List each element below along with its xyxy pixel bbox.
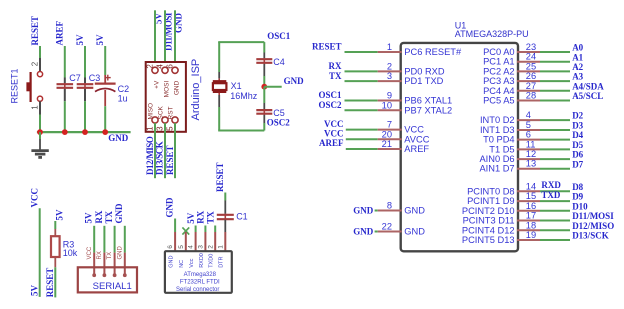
svg-text:PB6 XTAL1: PB6 XTAL1 — [404, 96, 452, 106]
wire U1 pin 15 to D9 — [540, 200, 570, 202]
svg-text:C2: C2 — [118, 84, 130, 94]
svg-text:GND: GND — [404, 227, 425, 237]
svg-text:5V: 5V — [186, 212, 196, 224]
wire VCC to 5V — [39, 208, 41, 297]
wire GND to FTDI pin 6 — [174, 219, 176, 233]
svg-text:VCC: VCC — [324, 119, 344, 129]
svg-text:20: 20 — [382, 129, 392, 139]
wire GND to ISP pin 6 — [174, 10, 176, 67]
svg-text:GND: GND — [353, 227, 374, 237]
net label RESET (ISP) — [165, 145, 175, 175]
wire U1 pin 13 to D7 — [540, 168, 570, 170]
wire ISP pin 5 to RESET — [174, 123, 176, 178]
wire U1 pin 17 to D11/MOSI — [540, 220, 570, 222]
net label D13/SCK (U1 pin 19) — [572, 231, 609, 241]
U1 pin 22 GND — [378, 222, 426, 237]
svg-text:RX: RX — [196, 210, 206, 223]
net label RX (SERIAL1 pin 2) — [94, 210, 104, 223]
svg-text:10k: 10k — [63, 248, 78, 258]
wire U1 pin 6 to D4 — [540, 139, 570, 141]
FTDI pin name Vcc — [189, 258, 195, 267]
net label RESET (U1 pin 1) — [312, 42, 342, 52]
svg-text:1: 1 — [145, 126, 154, 131]
FTDI pin name TXD0 — [209, 254, 215, 268]
svg-text:GND: GND — [117, 246, 123, 260]
svg-text:2: 2 — [145, 64, 154, 69]
net label OSC2 (U1 pin 10) — [318, 100, 342, 110]
U1 pin 4 INT0 D2 — [480, 110, 540, 125]
svg-text:D13/SCK: D13/SCK — [155, 141, 165, 175]
net label GND (crystal) — [284, 76, 305, 86]
U1 pin 14 PCINT0 D8 — [467, 181, 540, 196]
svg-text:16: 16 — [526, 201, 536, 211]
net label VCC (pullup feed) — [30, 188, 40, 208]
svg-text:MISO: MISO — [147, 103, 154, 120]
net label TX (FTDI pin2) — [205, 211, 215, 224]
svg-text:4: 4 — [155, 64, 164, 69]
svg-text:16Mhz: 16Mhz — [230, 91, 258, 101]
svg-text:11: 11 — [526, 139, 536, 149]
label C4 — [273, 57, 285, 67]
FTDI pin number 1 — [217, 245, 224, 249]
pin number 2 (RESET1) — [30, 61, 39, 66]
ISP pin name +V — [153, 80, 160, 89]
net label RX (FTDI pin3) — [196, 210, 206, 223]
svg-text:PCINT3 D11: PCINT3 D11 — [463, 216, 515, 226]
U1 pin 7 VCC — [378, 120, 425, 135]
junction (crystal GND) — [261, 84, 267, 90]
connector Arduino_ISP body — [146, 62, 186, 132]
wire C7 to GND bus — [64, 101, 66, 132]
wire U1 pin 27 to A4/SDA — [540, 90, 570, 92]
svg-text:SERIAL1: SERIAL1 — [93, 281, 132, 292]
svg-text:D11/MOSI: D11/MOSI — [572, 211, 614, 221]
svg-text:TX: TX — [104, 210, 114, 223]
junction (button-GND) — [37, 129, 43, 135]
U1 pin 21 AREF — [378, 139, 430, 154]
svg-text:RX: RX — [329, 61, 342, 71]
svg-text:PCINT0 D8: PCINT0 D8 — [467, 186, 515, 196]
label SERIAL1 — [93, 281, 132, 292]
net label D12/MISO — [145, 136, 155, 175]
U1 pin 27 PC4 A4 — [483, 81, 540, 96]
GND bus wire — [37, 131, 131, 133]
wire C3 to GND bus — [84, 101, 86, 132]
U1 pin 16 PCINT2 D10 — [462, 201, 540, 216]
svg-text:PC0 A0: PC0 A0 — [483, 47, 515, 57]
label X1 — [231, 81, 242, 91]
net label 5V (R3 top) — [54, 209, 64, 221]
wire RESET to button pin 2 — [39, 46, 41, 72]
wire U1 pin 5 to D3 — [540, 129, 570, 131]
net label RESET (R3 bottom) — [45, 268, 55, 298]
svg-text:1: 1 — [387, 42, 392, 52]
wire ISP pin 3 to D13/SCK — [164, 123, 166, 178]
svg-text:21: 21 — [382, 139, 392, 149]
junction (C7-GND) — [62, 129, 68, 135]
wire U1 pin 4 to D2 — [540, 119, 570, 121]
svg-text:PC2 A2: PC2 A2 — [483, 66, 515, 76]
net label OSC1 (crystal) — [267, 31, 291, 41]
net label D12/MISO (U1 pin 18) — [572, 221, 614, 231]
wire AREF to C7 — [64, 46, 66, 78]
FTDI pin number 6 — [167, 245, 174, 249]
ISP pin 4 (top) — [155, 64, 168, 74]
net label GND (ISP pin6) — [174, 13, 184, 34]
svg-text:TX: TX — [205, 211, 215, 224]
svg-text:RX: RX — [97, 251, 103, 259]
label U1 — [455, 20, 467, 30]
svg-text:RESET: RESET — [165, 145, 175, 175]
net label GND (bus) — [108, 133, 129, 143]
svg-text:2: 2 — [207, 245, 214, 249]
svg-text:D3: D3 — [572, 121, 583, 131]
wire GND stub (crystal) — [264, 86, 281, 88]
U1 pin 10 PB7 XTAL2 — [378, 100, 452, 115]
net label D11/MOSI (U1 pin 17) — [572, 211, 614, 221]
U1 pin 1 PC6 RESET# — [378, 42, 462, 57]
SERIAL1 pin 1 lead — [92, 253, 96, 278]
label R3 — [63, 240, 75, 250]
svg-text:6: 6 — [167, 245, 174, 249]
svg-text:D12/MISO: D12/MISO — [145, 136, 155, 175]
svg-text:18: 18 — [526, 220, 536, 230]
svg-text:12: 12 — [526, 149, 536, 159]
svg-text:5: 5 — [526, 120, 531, 130]
U1 pin 13 AIN1 D7 — [479, 159, 540, 174]
net label D4 (U1 pin 6) — [572, 130, 583, 140]
FTDI pin name NC — [179, 260, 185, 268]
svg-text:OSC2: OSC2 — [267, 118, 291, 128]
svg-text:A5/SCL: A5/SCL — [572, 91, 603, 101]
wire OSC1 branch to C4 — [263, 42, 265, 52]
net label D10 (U1 pin 16) — [572, 201, 588, 211]
svg-text:6: 6 — [526, 130, 531, 140]
svg-text:2: 2 — [387, 61, 392, 71]
svg-text:10: 10 — [382, 100, 392, 110]
connector FT232RL FTDI body — [165, 251, 232, 293]
net label D7 (U1 pin 13) — [572, 159, 583, 169]
svg-text:RESET: RESET — [45, 268, 55, 298]
wire OSC2 (bottom of crystal loop) — [218, 107, 264, 131]
net label A1 (U1 pin 24) — [572, 52, 583, 62]
svg-text:AREF: AREF — [319, 138, 344, 148]
net label OSC2 (crystal) — [267, 118, 291, 128]
net label TX (U1 pin 3) — [329, 71, 342, 81]
wire U1 pin 12 to D6 — [540, 158, 570, 160]
svg-text:D6: D6 — [572, 150, 583, 160]
net label 5V (SERIAL1 pin 1) — [84, 212, 94, 224]
wire D11/MOSI to ISP pin 4 — [164, 10, 166, 67]
svg-text:5V: 5V — [29, 285, 39, 297]
svg-text:C7: C7 — [69, 73, 81, 83]
junction (C3-GND) — [82, 129, 88, 135]
wire C4 to junction — [263, 76, 265, 87]
net label GND (SERIAL1 pin 4) — [114, 203, 124, 224]
wire U1 pin 11 to D5 — [540, 148, 570, 150]
U1 pin 24 PC1 A1 — [483, 52, 540, 67]
svg-text:19: 19 — [526, 230, 536, 240]
net label D6 (U1 pin 12) — [572, 150, 583, 160]
svg-text:PC1 A1: PC1 A1 — [483, 57, 515, 67]
svg-text:3: 3 — [198, 245, 205, 249]
U1 pin 19 PCINT5 D13 — [462, 230, 540, 245]
wire 5V to C3 — [84, 46, 86, 78]
net label VCC (U1 pin 20) — [324, 129, 344, 139]
FTDI pin 5 lead — [185, 232, 187, 252]
svg-text:OSC1: OSC1 — [318, 90, 342, 100]
capacitor C1 — [217, 201, 234, 233]
svg-text:PCINT4 D12: PCINT4 D12 — [462, 225, 515, 235]
svg-text:GND: GND — [169, 256, 175, 268]
svg-text:X1: X1 — [231, 81, 242, 91]
wire 5V to SERIAL1 pin 1 — [93, 226, 95, 253]
wire U1 pin 23 to A0 — [540, 51, 570, 53]
svg-text:GND: GND — [404, 206, 425, 216]
net label D2 (U1 pin 4) — [572, 111, 583, 121]
svg-text:AREF: AREF — [404, 144, 429, 154]
svg-text:MOSI: MOSI — [163, 81, 170, 98]
svg-text:D10: D10 — [572, 201, 588, 211]
U1 pin 6 T0 PD4 — [483, 130, 540, 145]
svg-text:RXD: RXD — [541, 180, 561, 190]
U1 pin 11 T1 D5 — [489, 139, 540, 154]
capacitor C5 — [256, 103, 272, 131]
svg-text:PC6 RESET#: PC6 RESET# — [404, 47, 462, 57]
net label GND (FTDI pin6) — [165, 197, 175, 218]
svg-text:3: 3 — [387, 71, 392, 81]
wire to U1 pin 10 — [345, 109, 378, 111]
svg-text:23: 23 — [526, 42, 536, 52]
FTDI pin name GND — [169, 256, 175, 268]
wire U1 pin 28 to A5/SCL — [540, 100, 570, 102]
wire C2 to GND bus — [104, 106, 106, 132]
net label GND (U1 pin 22) — [353, 227, 374, 237]
net label 5V (C3 branch) — [75, 34, 85, 46]
FTDI pin 4 lead — [195, 232, 197, 252]
net label OSC1 (U1 pin 9) — [318, 90, 342, 100]
svg-text:26: 26 — [526, 71, 536, 81]
svg-text:D4: D4 — [572, 130, 583, 140]
svg-text:Vcc: Vcc — [189, 258, 195, 267]
SERIAL1 pin 3 lead — [113, 253, 117, 278]
svg-text:PCINT2 D10: PCINT2 D10 — [462, 206, 515, 216]
FTDI pin number 3 — [198, 245, 205, 249]
svg-text:A3: A3 — [572, 72, 583, 82]
label ATMEGA328P-PU — [455, 29, 529, 39]
label ATmega328 (FTDI) — [184, 272, 217, 278]
FTDI pin name RXD0 — [199, 253, 205, 268]
label Arduino_ISP — [190, 59, 202, 121]
wire U1 pin 19 to D13/SCK — [540, 239, 570, 241]
wire 5V to FTDI pin 4 — [195, 226, 197, 233]
svg-text:GND: GND — [165, 197, 175, 218]
svg-text:OSC2: OSC2 — [318, 100, 342, 110]
svg-text:RXD0: RXD0 — [199, 253, 205, 268]
U1 pin 9 PB6 XTAL1 — [378, 91, 452, 106]
svg-text:AIN1 D7: AIN1 D7 — [479, 164, 514, 174]
capacitor C4 — [256, 53, 272, 77]
wire GND to SERIAL1 pin 4 — [124, 226, 126, 253]
svg-text:1: 1 — [30, 105, 39, 110]
wire U1 pin 26 to A3 — [540, 80, 570, 82]
pin number 1 (RESET1) — [30, 105, 39, 110]
wire U1 pin 16 to D10 — [540, 210, 570, 212]
net label 5V (ISP pin2) — [154, 13, 164, 25]
svg-text:GND: GND — [114, 203, 124, 224]
svg-text:5V: 5V — [75, 34, 85, 46]
svg-text:NC: NC — [179, 260, 185, 268]
ISP pin name RST — [167, 106, 174, 119]
connector SERIAL1 body — [78, 267, 137, 292]
label FT232RL FTDI — [180, 279, 220, 285]
no-connect X (FTDI pin5) — [182, 227, 189, 234]
wire 5V to ISP pin 2 — [154, 10, 156, 67]
svg-text:D8: D8 — [572, 182, 583, 192]
U1 pin 8 GND — [378, 201, 426, 216]
crystal X1 — [213, 72, 227, 107]
svg-text:T0 PD4: T0 PD4 — [483, 135, 515, 145]
ISP pin name SCK — [157, 105, 164, 119]
ISP pin 6 (top) — [165, 64, 178, 74]
svg-text:DTR: DTR — [219, 256, 225, 267]
capacitor C2 (polarized) — [95, 75, 116, 107]
wire to U1 pin 2 — [345, 70, 378, 72]
wire R3 to RESET — [54, 267, 56, 297]
wire TX to SERIAL1 pin 3 — [114, 226, 116, 253]
svg-text:14: 14 — [526, 181, 536, 191]
U1 pin 26 PC3 A3 — [483, 71, 540, 86]
label C2 — [118, 84, 130, 94]
svg-text:GND: GND — [173, 80, 180, 95]
svg-text:TX: TX — [107, 252, 113, 260]
SERIAL1 pin name GND — [117, 246, 123, 260]
U1 pin 17 PCINT3 D11 — [463, 211, 540, 226]
wire to U1 pin 8 — [375, 210, 378, 212]
net label RESET — [30, 16, 40, 46]
svg-text:PCINT5 D13: PCINT5 D13 — [462, 235, 515, 245]
junction (C2-GND) — [102, 129, 108, 135]
wire to U1 pin 22 — [375, 231, 378, 233]
svg-text:A0: A0 — [572, 43, 583, 53]
svg-text:D5: D5 — [572, 140, 583, 150]
svg-text:PC4 A4: PC4 A4 — [483, 86, 515, 96]
svg-text:D7: D7 — [572, 159, 583, 169]
svg-text:D9: D9 — [572, 192, 583, 202]
svg-text:ATmega328: ATmega328 — [184, 272, 217, 278]
wire U1 pin 25 to A2 — [540, 70, 570, 72]
value 10k (R3) — [63, 248, 78, 258]
svg-text:VCC: VCC — [87, 246, 93, 259]
U1 pin 2 PD0 RXD — [378, 61, 445, 76]
wire button pin 1 to GND bus — [39, 101, 41, 132]
ISP pin 2 (top) — [145, 64, 158, 74]
SERIAL1 pin 2 lead — [103, 253, 107, 278]
ISP pin 3 (bottom) — [155, 117, 168, 131]
SERIAL1 pin name RX — [97, 251, 103, 259]
net label VCC (U1 pin 7) — [324, 119, 344, 129]
wire to U1 pin 21 — [346, 148, 378, 150]
net label D9 (U1 pin 15) — [572, 192, 583, 202]
svg-text:PC5 A5: PC5 A5 — [483, 96, 515, 106]
net label D8 (U1 pin 14) — [572, 182, 583, 192]
svg-text:AVCC: AVCC — [404, 134, 429, 144]
svg-text:T1 D5: T1 D5 — [489, 144, 514, 154]
svg-text:PC3 A3: PC3 A3 — [483, 76, 515, 86]
wire ISP pin 1 to D12/MISO — [154, 123, 156, 178]
svg-text:TXD0: TXD0 — [209, 254, 215, 268]
FTDI pin name DTR — [219, 256, 225, 267]
svg-text:8: 8 — [387, 201, 392, 211]
net label D3 (U1 pin 5) — [572, 121, 583, 131]
wire to U1 pin 9 — [345, 100, 378, 102]
svg-text:VCC: VCC — [404, 125, 424, 135]
svg-text:RST: RST — [167, 106, 174, 119]
FTDI pin 3 lead — [204, 232, 206, 252]
wire to U1 pin 7 — [346, 129, 378, 131]
svg-text:PCINT1 D9: PCINT1 D9 — [467, 196, 515, 206]
net label 5V (FTDI pin4) — [186, 212, 196, 224]
svg-text:5V: 5V — [54, 209, 64, 221]
SERIAL1 pin 4 lead — [123, 253, 127, 278]
net label 5V (pullup feed) — [29, 285, 39, 297]
net label A4/SDA (U1 pin 27) — [572, 81, 604, 91]
svg-text:5V: 5V — [84, 212, 94, 224]
U1 pin 15 PCINT1 D9 — [467, 191, 540, 206]
svg-text:FT232RL FTDI: FT232RL FTDI — [180, 279, 220, 285]
wire OSC1 (top of crystal loop) — [218, 42, 264, 72]
wire U1 pin 18 to D12/MISO — [540, 229, 570, 231]
U1 pin 25 PC2 A2 — [483, 61, 540, 76]
svg-text:PD0 RXD: PD0 RXD — [404, 66, 445, 76]
U1 pin 23 PC0 A0 — [483, 42, 540, 57]
net label AREF (U1 pin 21) — [319, 138, 344, 148]
svg-text:TX: TX — [329, 71, 342, 81]
svg-text:TXD: TXD — [541, 190, 561, 200]
svg-text:22: 22 — [382, 222, 392, 232]
svg-text:1: 1 — [217, 245, 224, 249]
FTDI pin number 5 — [178, 245, 185, 249]
svg-text:5: 5 — [178, 245, 185, 249]
wire RX to FTDI pin 3 — [204, 226, 206, 233]
wire to U1 pin 3 — [345, 80, 378, 82]
wire to U1 pin 1 — [345, 51, 378, 53]
svg-text:SCK: SCK — [157, 105, 164, 119]
FTDI pin number 4 — [188, 245, 195, 249]
svg-text:3: 3 — [155, 126, 164, 131]
value 1u (C2) — [118, 94, 128, 104]
svg-text:VCC: VCC — [30, 188, 40, 208]
svg-text:INT0 D2: INT0 D2 — [480, 115, 515, 125]
SERIAL1 pin name TX — [107, 252, 113, 260]
capacitor C3 — [77, 78, 94, 102]
wire RX to SERIAL1 pin 2 — [103, 226, 105, 253]
ISP pin name MISO — [147, 103, 154, 120]
resistor R3 — [51, 229, 60, 267]
svg-text:RESET: RESET — [312, 42, 342, 52]
svg-text:C4: C4 — [273, 57, 285, 67]
svg-text:VCC: VCC — [324, 129, 344, 139]
FTDI pin number 2 — [207, 245, 214, 249]
U1 pin 28 PC5 A5 — [483, 91, 540, 106]
svg-text:GND: GND — [284, 76, 305, 86]
wire to U1 pin 20 — [346, 138, 378, 140]
svg-text:RESET1: RESET1 — [10, 68, 20, 103]
wire U1 pin 24 to A1 — [540, 61, 570, 63]
svg-text:17: 17 — [526, 211, 536, 221]
net label 5V (C2 branch) — [95, 34, 105, 46]
svg-text:C5: C5 — [273, 108, 285, 118]
